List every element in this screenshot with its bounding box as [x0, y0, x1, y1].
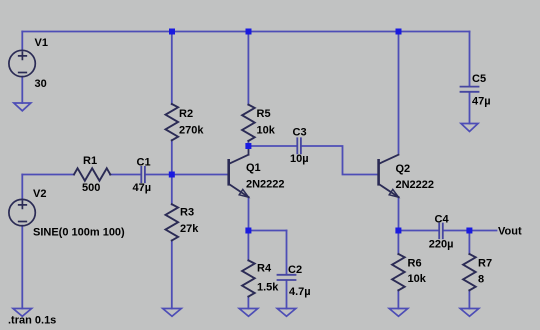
- wire input line left: [22, 174, 74, 176]
- resistor R2: [166, 104, 179, 140]
- svg-text:1.5k: 1.5k: [257, 282, 279, 294]
- ground below C5: [461, 124, 478, 132]
- wire R4 bottom lead: [247, 297, 249, 309]
- ground below R4: [239, 309, 258, 317]
- svg-text:V2: V2: [33, 188, 46, 200]
- wire C4 to R7 node: [443, 230, 469, 232]
- svg-text:4.7µ: 4.7µ: [289, 286, 311, 298]
- wire V2 top lead: [21, 175, 23, 200]
- transistor Q2: [379, 155, 399, 197]
- wire C5 top lead: [469, 32, 471, 87]
- svg-text:47µ: 47µ: [472, 96, 491, 108]
- wire R5 top lead: [247, 32, 249, 105]
- resistor R3: [166, 204, 179, 240]
- capacitor C3: [297, 138, 301, 153]
- svg-text:47µ: 47µ: [133, 182, 152, 194]
- wire R6 top lead: [397, 231, 399, 255]
- ground below R3: [163, 309, 182, 317]
- svg-text:R5: R5: [257, 108, 271, 120]
- wire R3 top lead: [171, 175, 173, 205]
- wire R1 to C1: [110, 174, 140, 176]
- wire V1 bottom lead: [21, 77, 23, 103]
- capacitor C2: [278, 275, 296, 280]
- capacitor C1: [141, 167, 145, 182]
- wire R3 bottom lead: [171, 240, 173, 308]
- svg-text:270k: 270k: [179, 125, 204, 137]
- resistor R7: [463, 254, 476, 290]
- wire C3 to Q2 base: [302, 146, 378, 175]
- wire Q1 emitter lead: [248, 197, 250, 231]
- svg-text:C3: C3: [293, 127, 307, 139]
- svg-text:Q1: Q1: [246, 162, 261, 174]
- svg-text:27k: 27k: [180, 223, 199, 235]
- svg-text:Vout: Vout: [498, 226, 522, 238]
- resistor R6: [392, 254, 405, 290]
- wire C2 top lead: [286, 231, 288, 275]
- wire Q2 collector lead: [398, 32, 400, 154]
- svg-text:8: 8: [478, 274, 484, 286]
- ground below R7: [460, 309, 479, 317]
- ground below R6: [389, 309, 408, 317]
- svg-text:C1: C1: [137, 157, 151, 169]
- ground below C2: [277, 309, 296, 317]
- ground below V2: [13, 309, 32, 317]
- svg-text:C5: C5: [472, 73, 486, 85]
- wire R2 bottom lead: [171, 140, 173, 174]
- resistor R1: [74, 168, 110, 180]
- transistor Q1: [229, 148, 249, 197]
- svg-text:C4: C4: [435, 214, 450, 226]
- node junction dots: [169, 29, 473, 234]
- svg-text:R7: R7: [478, 258, 492, 270]
- wire C2 bottom lead: [286, 280, 288, 308]
- wire V2 bottom lead: [21, 226, 23, 309]
- svg-text:R3: R3: [180, 207, 194, 219]
- svg-text:2N2222: 2N2222: [396, 179, 435, 191]
- resistor R5: [242, 105, 255, 141]
- svg-text:2N2222: 2N2222: [246, 179, 285, 191]
- svg-text:R2: R2: [179, 108, 193, 120]
- wire Q2 emitter lead: [398, 197, 400, 231]
- svg-text:500: 500: [82, 182, 100, 194]
- wire node C to C3: [249, 145, 297, 147]
- wire Q2 emitter node to C4: [399, 230, 440, 232]
- wire R5 bottom lead: [247, 141, 249, 146]
- capacitor C4: [439, 224, 443, 239]
- svg-text:30: 30: [35, 78, 47, 90]
- wire node to Vout: [470, 230, 497, 232]
- wire top rail: [22, 31, 469, 33]
- resistor R4: [242, 260, 255, 296]
- svg-text:10k: 10k: [408, 273, 427, 285]
- svg-text:SINE(0 100m 100): SINE(0 100m 100): [33, 227, 125, 239]
- svg-text:10k: 10k: [257, 125, 276, 137]
- svg-text:R1: R1: [83, 155, 97, 167]
- wire R4 top lead: [247, 231, 249, 261]
- svg-text:220µ: 220µ: [429, 239, 454, 251]
- wire emitter node to C2 branch: [249, 230, 287, 232]
- svg-text:10µ: 10µ: [290, 153, 309, 165]
- svg-text:R4: R4: [257, 263, 272, 275]
- wire C1 to Q1 base: [146, 174, 228, 176]
- wire C5 bottom lead: [469, 92, 471, 123]
- wire R7 top lead: [468, 231, 470, 255]
- wire R2 top lead: [171, 32, 173, 105]
- svg-text:V1: V1: [35, 37, 48, 49]
- svg-text:R6: R6: [408, 258, 422, 270]
- voltage source V1: [9, 50, 35, 76]
- svg-text:C2: C2: [288, 264, 302, 276]
- wire R7 bottom lead: [468, 290, 470, 308]
- voltage source V2: [9, 199, 35, 225]
- svg-text:Q2: Q2: [396, 163, 411, 175]
- wire R6 bottom lead: [397, 290, 399, 308]
- ground below V1: [14, 103, 31, 111]
- svg-text:.tran 0.1s: .tran 0.1s: [8, 315, 56, 327]
- wire V1 top lead: [21, 32, 23, 51]
- capacitor C5: [461, 87, 479, 92]
